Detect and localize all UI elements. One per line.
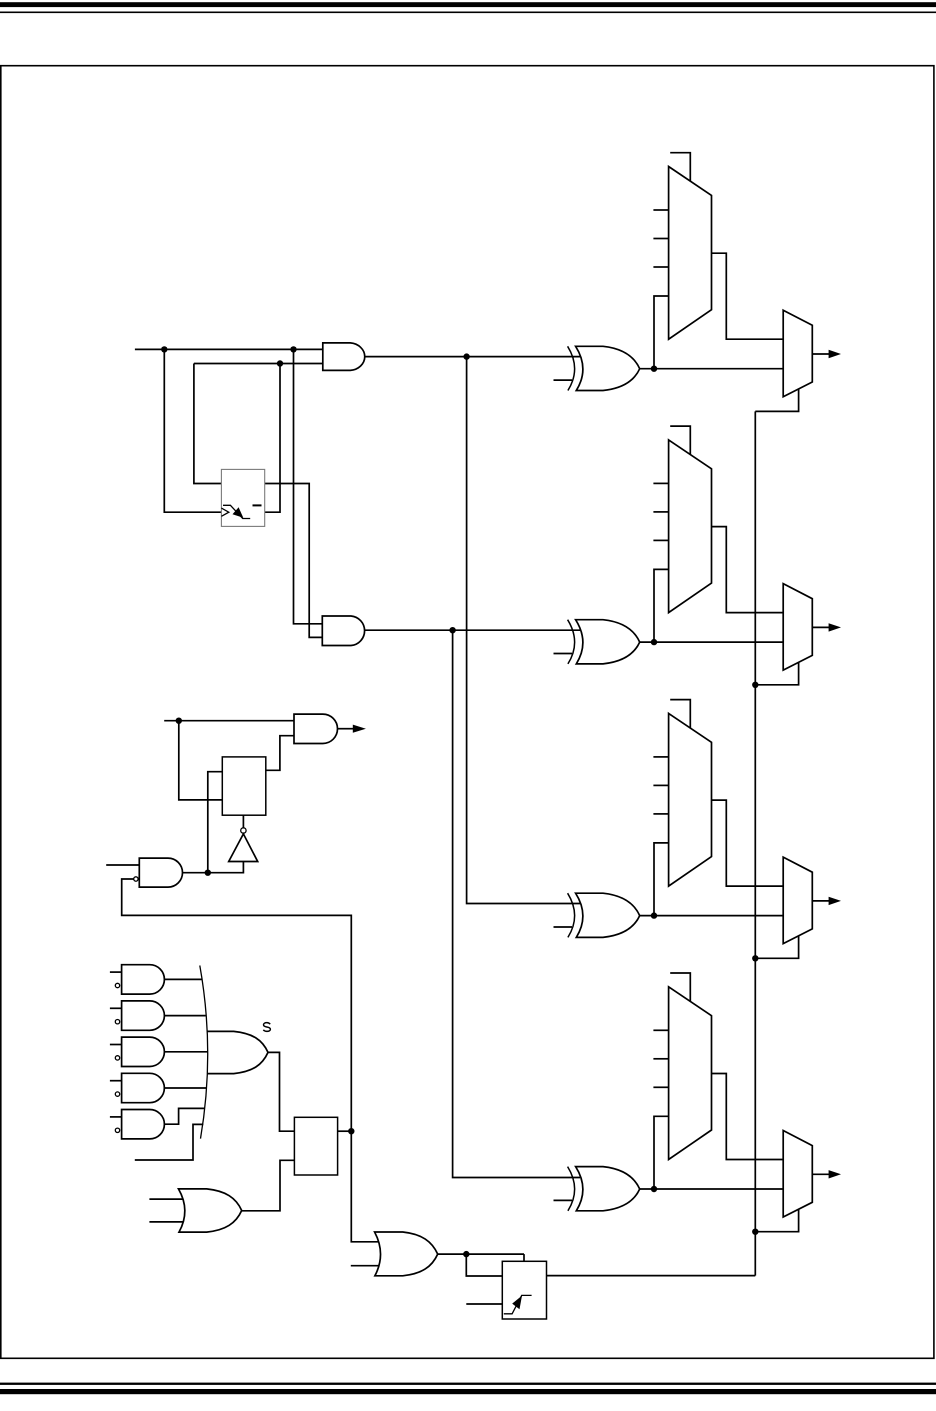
node J2 on AND A2 output <box>449 627 455 633</box>
wire input net to AND A3 <box>164 720 294 722</box>
input stub XOR X1 bottom <box>554 379 573 381</box>
select bus vertical <box>754 411 756 1275</box>
input stub mux M3 pin 1 <box>653 756 668 758</box>
rising-edge symbol U4 <box>504 1295 532 1313</box>
node on NAND G0 output <box>205 870 211 876</box>
select stub mux M4 top <box>670 973 690 1002</box>
wire XOR X4 output up to mux M4 input 4 <box>654 1116 669 1189</box>
wire G7 output to flip-flop U4 top <box>523 1254 525 1261</box>
wire NAND G0 output to inverter input <box>183 862 244 873</box>
input stub OR G6 bottom <box>149 1221 186 1223</box>
input stub OR G6 top <box>149 1198 186 1200</box>
wire U1 D node to AND A2 lower input <box>265 484 323 638</box>
OR input arc <box>200 966 208 1139</box>
wire gate G3 output to OR arc <box>164 1051 207 1053</box>
wire mux M3 output to mux MS3 <box>712 800 784 886</box>
wire G0 bubble input from feedback net <box>122 879 382 1242</box>
input stub G5 top <box>110 1116 122 1118</box>
node on XOR X1 output <box>651 366 657 372</box>
NAND gate G0 <box>139 858 182 887</box>
wire gate G2 output to OR arc <box>164 1015 205 1017</box>
AND gate G4 (inverted input) <box>122 1073 165 1102</box>
wire XOR X1 output up to mux M1 input 4 <box>654 296 669 369</box>
select wire mux MS2 to select bus <box>755 662 798 684</box>
AND gate G5 (inverted input) <box>122 1110 165 1139</box>
node select bus row 3 <box>752 955 758 961</box>
wire XOR X4 output to mux MS4 <box>640 1188 784 1190</box>
wire AND A1 output to XOR X1 <box>364 356 580 358</box>
wire XOR X2 output up to mux M2 input 4 <box>654 569 669 642</box>
bubble G4 lower input <box>115 1092 119 1096</box>
select wire mux MS1 to select bus <box>755 389 798 411</box>
output arrow mux MS2 <box>812 623 841 631</box>
node feedback net at U3 output <box>348 1128 354 1134</box>
wire mux M4 output to mux MS4 <box>712 1074 784 1160</box>
input stub mux M2 pin 1 <box>653 482 668 484</box>
wire gate G5 output to OR arc <box>164 1108 204 1124</box>
wire mux M1 output to mux MS1 <box>712 253 784 339</box>
AND gate A3 <box>294 714 338 743</box>
input stub mux M4 pin 1 <box>653 1029 668 1031</box>
node on XOR X3 output <box>651 912 657 918</box>
select stub mux M1 top <box>670 153 690 182</box>
input stub mux M3 pin 2 <box>653 784 668 786</box>
clock chevron U1 <box>221 508 228 516</box>
XOR gate X1 <box>568 346 640 390</box>
clock stub U4 <box>466 1303 502 1305</box>
node on AND A3 input net <box>176 718 182 724</box>
AND gate A2 <box>322 616 364 646</box>
wire from node J2 down to XOR X4 top input <box>453 630 580 1177</box>
mux MS4 (2-input) <box>783 1131 812 1218</box>
bubble NAND G0 lower input <box>134 877 138 881</box>
node on XOR X2 output <box>651 639 657 645</box>
select wire mux MS4 to select bus <box>755 1209 798 1231</box>
input stub XOR X3 bottom <box>554 926 573 928</box>
wire G7 output to flip-flop U4 D input <box>466 1254 502 1276</box>
bubble G5 lower input <box>115 1128 119 1132</box>
wire mux M2 output to mux MS2 <box>712 527 784 613</box>
wire clock net down to AND A2 upper input <box>294 349 323 623</box>
output arrow mux MS1 <box>812 350 841 358</box>
box U3 <box>294 1117 337 1175</box>
XOR gate X4 <box>568 1167 640 1211</box>
input stub G1 top <box>110 971 122 973</box>
wire toggle net down to flip-flop U1 D input <box>194 364 222 484</box>
input stub OR G7 bottom <box>351 1265 382 1267</box>
input stub G3 top <box>110 1044 122 1046</box>
output arrow mux MS4 <box>812 1170 841 1178</box>
OR gate G6 <box>179 1189 242 1232</box>
wire XOR X3 output up to mux M3 input 4 <box>654 843 669 916</box>
bubble G2 lower input <box>115 1020 119 1024</box>
flip-flop U1 (toggle) <box>221 469 264 526</box>
input stub mux M2 pin 3 <box>653 539 668 541</box>
input stub G4 top <box>110 1080 122 1082</box>
mux MS3 (2-input) <box>783 857 812 944</box>
inverter (points up) <box>229 834 258 862</box>
input stub G2 top <box>110 1007 122 1009</box>
bubble G3 lower input <box>115 1056 119 1060</box>
mux M3 (4-input) <box>669 713 712 886</box>
wire extra input to OR arc <box>135 1124 204 1160</box>
wire gate G1 output to OR arc <box>164 978 201 980</box>
wire clock net down to flip-flop U1 clock <box>164 349 221 512</box>
wire from node J1 down to XOR X3 top input <box>467 357 580 904</box>
wire OR S output to U3 upper input <box>268 1052 294 1131</box>
output arrow mux MS3 <box>812 897 841 905</box>
wire XOR X2 output to mux MS2 <box>640 641 784 643</box>
mux MS2 (2-input) <box>783 584 812 671</box>
node on clock net at AND A2 branch <box>290 346 296 352</box>
input stub mux M1 pin 2 <box>653 238 668 240</box>
mux MS1 (2-input) <box>783 310 812 397</box>
wire A3 input net down to U2 lower input <box>179 721 223 800</box>
wire XOR X3 output to mux MS3 <box>640 915 784 917</box>
wire OR G7 output <box>438 1253 524 1255</box>
node on G7 output <box>463 1251 469 1257</box>
select stub mux M2 top <box>670 426 690 455</box>
wire OR G6 output to U3 lower input <box>242 1160 295 1211</box>
OR gate S <box>207 1031 268 1073</box>
input stub mux M1 pin 3 <box>653 266 668 268</box>
label S <box>263 1023 270 1032</box>
wire NAND G0 output up to U2 upper input <box>208 772 223 873</box>
select stub mux M3 top <box>670 700 690 729</box>
wire U3 output to feedback net <box>338 1130 352 1132</box>
input stub mux M1 pin 1 <box>653 209 668 211</box>
input stub mux M4 pin 3 <box>653 1086 668 1088</box>
flip-flop U4 <box>502 1261 546 1319</box>
input stub mux M2 pin 2 <box>653 511 668 513</box>
wire U4 output to select bus <box>547 1275 756 1277</box>
node toggle net <box>277 360 283 366</box>
bubble G1 lower input <box>115 983 119 987</box>
node select bus row 4 <box>752 1229 758 1235</box>
wire XOR X1 output to mux MS1 <box>640 368 784 370</box>
node J1 on AND A1 output <box>463 353 469 359</box>
AND gate G1 (inverted input) <box>122 965 165 994</box>
wire U1 Q-bar output up to toggle net <box>265 364 280 513</box>
wire clock input net <box>135 348 323 350</box>
wire AND A2 output to XOR X2 <box>364 629 580 631</box>
mux M4 (4-input) <box>669 987 712 1160</box>
input stub XOR X4 bottom <box>554 1199 573 1201</box>
node select bus row 2 <box>752 682 758 688</box>
wire comparator U2 output up to AND A3 lower input <box>266 736 294 771</box>
input stub mux M4 pin 2 <box>653 1058 668 1060</box>
select wire mux MS3 to select bus <box>755 936 798 958</box>
stub U2 bottom to inverter bubble <box>242 815 244 828</box>
mux M2 (4-input) <box>669 440 712 613</box>
output arrow AND A3 <box>338 725 366 733</box>
falling-edge symbol U1 <box>223 505 250 518</box>
mux M1 (4-input) <box>669 167 712 340</box>
node on clock net at divider <box>161 346 167 352</box>
AND gate G3 (inverted input) <box>122 1037 165 1066</box>
inverter bubble <box>241 828 246 833</box>
wire toggle net to AND A1 <box>194 363 323 365</box>
input stub NAND G0 top <box>106 864 139 866</box>
XOR gate X2 <box>568 620 640 664</box>
Q-bar overbar mark U1 <box>253 504 262 506</box>
input stub mux M3 pin 3 <box>653 813 668 815</box>
OR gate G7 <box>375 1232 438 1276</box>
box U2 <box>222 757 265 815</box>
AND gate A1 <box>323 343 365 371</box>
wire gate G4 output to OR arc <box>164 1087 206 1089</box>
XOR gate X3 <box>568 893 640 937</box>
AND gate G2 (inverted input) <box>122 1001 165 1030</box>
node on XOR X4 output <box>651 1186 657 1192</box>
input stub XOR X2 bottom <box>554 653 573 655</box>
